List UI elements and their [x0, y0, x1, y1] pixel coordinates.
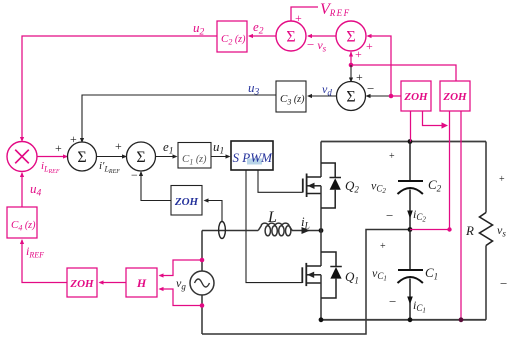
- svg-text:ZOH: ZOH: [174, 196, 199, 208]
- pink sense lead bottom to H: [159, 287, 203, 306]
- svg-text:Σ: Σ: [136, 149, 145, 166]
- svg-text:L: L: [267, 209, 277, 226]
- svg-text:−: −: [131, 168, 138, 182]
- Q2 leg upper: [320, 142, 322, 178]
- svg-text:−: −: [500, 276, 507, 291]
- source vg: [190, 271, 214, 295]
- Q1 leg lower: [320, 275, 322, 320]
- node iL junction: [319, 228, 324, 233]
- wire vc1 horizontal to ZOH2 top: [351, 65, 456, 81]
- svg-text:+: +: [380, 241, 386, 252]
- controller C4(z): [7, 207, 37, 238]
- svg-text:Σ: Σ: [346, 89, 355, 106]
- svg-text:C4 (z): C4 (z): [11, 219, 36, 233]
- svg-text:+: +: [366, 39, 373, 53]
- node bottom rail Q1 junction: [319, 317, 324, 322]
- svg-text:ZOH: ZOH: [69, 278, 94, 290]
- svg-text:C1 (z): C1 (z): [182, 153, 207, 167]
- multiplier X: [7, 142, 37, 172]
- wire vg bottom lead: [201, 295, 203, 335]
- resistor R branch lower: [485, 246, 487, 320]
- svg-text:R: R: [465, 223, 474, 238]
- svg-text:ZOH: ZOH: [442, 91, 467, 103]
- wire u3 (C3z output to S1b top): [80, 95, 276, 143]
- svg-text:+: +: [295, 11, 302, 25]
- Q2 leg lower: [320, 186, 322, 231]
- block ZOH bottom-left: [67, 268, 97, 297]
- wire vc2 to S2p right input: [367, 34, 392, 96]
- wire SPWM gate output to Q2: [258, 170, 303, 192]
- node vc1 junction: [349, 63, 354, 68]
- wire input line vg to inductor: [202, 230, 258, 232]
- wire vd: [307, 94, 337, 98]
- node vc2 junction: [389, 94, 394, 99]
- svg-text:+: +: [389, 151, 395, 162]
- block SPWM: [231, 141, 273, 170]
- svg-text:H: H: [136, 276, 147, 290]
- wire H to ZOH bottom-left: [99, 280, 127, 284]
- svg-text:−: −: [389, 294, 396, 309]
- block ZOH2: [440, 81, 470, 111]
- transistor Q2: [303, 174, 321, 198]
- wire ZOH1 input from top rail: [410, 111, 412, 142]
- wire ZOH2 right input from bottom rail: [460, 111, 462, 320]
- capacitor C1: [398, 230, 424, 320]
- node pink midpoint junction: [447, 227, 451, 231]
- converter bottom rail: [321, 319, 486, 321]
- svg-text:+: +: [355, 47, 362, 61]
- wire vg return to capacitor midpoint: [202, 230, 410, 335]
- wire e1: [156, 154, 178, 158]
- block ZOH mid: [171, 186, 202, 216]
- wire S2p bottom to node vc1: [349, 52, 353, 66]
- svg-text:C2 (z): C2 (z): [221, 33, 246, 47]
- wire iREF (ZOH to C4z): [20, 239, 67, 283]
- block H: [126, 268, 157, 297]
- inductor L: [258, 223, 292, 230]
- node vg sense top: [200, 258, 205, 263]
- wire ZOH2 left input from midpoint: [449, 111, 451, 230]
- svg-text:Σ: Σ: [286, 29, 295, 46]
- transistor Q1: [302, 263, 321, 286]
- node top rail C2 junction: [408, 139, 413, 144]
- summer S2 pink (vs = vc1+vc2): [336, 21, 366, 51]
- wire vc1 into S3 top: [349, 65, 353, 83]
- summer S1 pink (VREF - vs): [276, 21, 306, 51]
- svg-text:Σ: Σ: [346, 29, 355, 46]
- controller C2(z): [217, 21, 247, 52]
- wire iLref (multiplier to S1b): [37, 154, 68, 158]
- summer S2b black: [127, 142, 156, 171]
- svg-text:+: +: [115, 139, 122, 153]
- summer S3 black (vd = vc1-vc2): [337, 82, 366, 111]
- node vg sense bottom: [200, 303, 205, 308]
- pink sense lead top to H: [159, 260, 203, 278]
- capacitor C2: [398, 142, 424, 230]
- block ZOH1: [401, 81, 431, 111]
- diode D2 (body diode of Q2): [321, 163, 341, 208]
- svg-text:S PWM: S PWM: [233, 151, 273, 165]
- svg-text:C3 (z): C3 (z): [280, 93, 305, 107]
- wire vg top lead: [201, 231, 203, 272]
- wire u1: [211, 154, 231, 158]
- node bottom rail C1 junction: [408, 317, 413, 322]
- wire midpoint to ZOH verticals: [410, 229, 450, 231]
- wire vs (S2p output to S1p): [307, 34, 336, 38]
- Q1 leg upper: [320, 231, 322, 267]
- svg-text:+: +: [55, 141, 62, 155]
- resistor R branch upper: [485, 142, 487, 213]
- svg-text:ZOH: ZOH: [403, 91, 428, 103]
- wire i'Lref: [97, 154, 128, 158]
- controller C3(z): [276, 81, 306, 112]
- svg-text:−: −: [386, 208, 393, 223]
- node bottom rail ZOH2 junction: [459, 317, 464, 322]
- wire e2: [248, 34, 277, 38]
- wire u4 (C4z to multiplier): [20, 172, 24, 207]
- current sensor ellipse: [219, 222, 226, 239]
- wire SPWM gate output to Q1: [246, 170, 302, 283]
- diode D1 (body diode of Q1): [321, 252, 342, 298]
- wire ZOH1 output lead: [391, 95, 401, 97]
- wire vc2 into S3 right: [366, 94, 392, 98]
- node capacitor midpoint: [408, 227, 413, 232]
- svg-text:Σ: Σ: [77, 149, 86, 166]
- summer S1b black: [68, 142, 97, 171]
- wire ZOH1 input from midpoint: [423, 111, 449, 129]
- wire current sensor to ZOH mid: [204, 198, 223, 221]
- wire ZOH mid to S2b bottom: [139, 171, 171, 201]
- svg-text:+: +: [499, 174, 505, 185]
- resistor R: [480, 213, 493, 246]
- controller C1(z): [178, 143, 211, 169]
- converter top rail: [321, 141, 486, 143]
- wire VREF: [291, 7, 318, 21]
- wire u2 feedback (C2z output left and down to multiplier): [20, 36, 217, 142]
- wire iL: [292, 227, 321, 234]
- svg-text:+: +: [356, 70, 363, 84]
- svg-text:−: −: [367, 81, 374, 96]
